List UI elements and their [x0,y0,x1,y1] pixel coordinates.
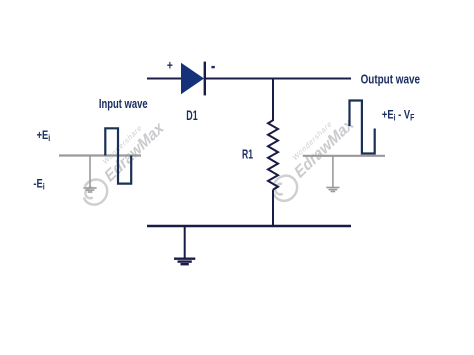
input square wave [105,128,131,183]
label -Ei [33,178,44,192]
output clipped wave [350,101,375,154]
diode D1 [181,63,204,95]
svg-text:-Ei: -Ei [33,178,44,192]
ground (circuit) [174,259,195,265]
svg-text:R1: R1 [242,147,253,162]
watermark left logo swirl [78,174,112,210]
resistor R1 [268,120,278,189]
wire: output ground stub (gray) [332,156,334,187]
watermark right logo swirl [268,171,302,207]
label +Ei [37,129,51,143]
ground (input reference) [83,188,96,192]
ground (output reference) [326,188,339,192]
wire: input ground stub (gray) [89,156,91,188]
svg-text:Output wave: Output wave [361,72,420,87]
label - (cathode) [211,66,214,68]
svg-text:D1: D1 [186,108,198,123]
wire: top rail anode side [147,78,181,80]
label +Ei - VF [382,109,415,123]
svg-text:+Ei - VF: +Ei - VF [382,109,415,123]
wire: top rail down to resistor [272,79,274,122]
svg-text:Input wave: Input wave [99,97,148,111]
svg-text:+: + [167,57,173,72]
node: input axis [59,154,141,156]
watermark left text [98,109,167,186]
wire: resistor to bottom rail [272,190,274,226]
watermark right text [288,105,357,182]
svg-text:+Ei: +Ei [37,129,51,143]
wire: ground stub [184,226,186,258]
wire: top rail cathode side to output [205,78,351,80]
wire: bottom rail [147,225,351,227]
node: output axis [303,155,385,157]
